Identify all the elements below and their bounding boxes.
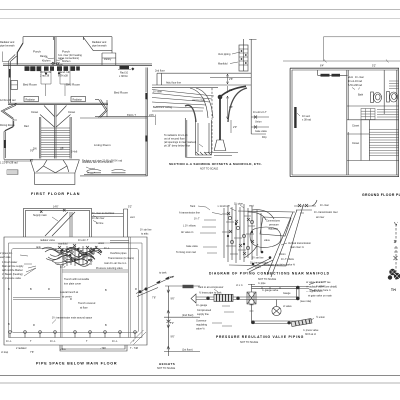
porch party wall bbox=[55, 37, 56, 65]
svg-text:Attic floor line: Attic floor line bbox=[166, 82, 182, 85]
svg-text:L 1¼ elbow: L 1¼ elbow bbox=[183, 225, 196, 228]
svg-text:to attic: to attic bbox=[141, 233, 149, 236]
svg-text:1¼ L: 1¼ L bbox=[6, 340, 12, 343]
svg-text:2nd floor: 2nd floor bbox=[155, 70, 165, 73]
svg-text:(see note): (see note) bbox=[300, 300, 311, 303]
svg-text:⅛ x ¾ T: ⅛ x ¾ T bbox=[316, 281, 325, 284]
svg-text:¼ pressure valve: ¼ pressure valve bbox=[2, 277, 22, 280]
svg-text:main: main bbox=[255, 266, 261, 269]
right elbow blobs bbox=[296, 286, 300, 290]
svg-text:x 1¼x1¼ T: x 1¼x1¼ T bbox=[218, 205, 231, 208]
svg-text:A transmission line: A transmission line bbox=[179, 212, 200, 215]
svg-text:Porch: Porch bbox=[62, 50, 70, 54]
porch lower rect bbox=[35, 173, 75, 184]
svg-text:- 748: - 748 bbox=[100, 347, 106, 350]
svg-text:Union: Union bbox=[279, 253, 286, 256]
bottom pipe valves bbox=[9, 331, 137, 338]
svg-text:R: R bbox=[33, 324, 35, 327]
svg-text:Overflow pipes: Overflow pipes bbox=[110, 252, 127, 255]
svg-text:1 Fresh water: 1 Fresh water bbox=[2, 261, 17, 264]
svg-text:Manifold: Manifold bbox=[218, 63, 228, 66]
cross fitting bbox=[247, 284, 256, 312]
top right double vertical bbox=[123, 209, 127, 237]
dark dim box bbox=[183, 285, 194, 288]
svg-text:DN: DN bbox=[33, 148, 37, 151]
svg-text:½ union: ½ union bbox=[316, 315, 326, 319]
svg-text:14'6": 14'6" bbox=[53, 206, 59, 209]
svg-text:1¼ riser: 1¼ riser bbox=[320, 204, 329, 207]
svg-text:1¼ gauge: 1¼ gauge bbox=[196, 304, 208, 307]
svg-text:supply line: supply line bbox=[197, 313, 209, 316]
svg-text:Main air line supply: Main air line supply bbox=[2, 265, 24, 268]
svg-text:1¼ T: 1¼ T bbox=[60, 266, 66, 269]
slanted quad outline bbox=[229, 204, 304, 277]
svg-text:1¼ riser: 1¼ riser bbox=[153, 91, 162, 94]
svg-text:⅛ valve: ⅛ valve bbox=[283, 305, 292, 308]
svg-text:30 lb at ⅛: 30 lb at ⅛ bbox=[305, 333, 317, 336]
inner verticals bbox=[61, 237, 131, 338]
svg-text:1¼ L: 1¼ L bbox=[104, 247, 110, 250]
stair walls bbox=[40, 117, 71, 159]
svg-text:To living room rad: To living room rad bbox=[176, 251, 196, 254]
gauge circle bbox=[272, 306, 281, 315]
stair treads bbox=[41, 128, 70, 157]
left wall radiator bbox=[294, 107, 296, 128]
svg-text:7'6": 7'6" bbox=[30, 351, 34, 354]
svg-text:Supply main: Supply main bbox=[33, 214, 47, 217]
right valve assembly bbox=[251, 85, 269, 134]
svg-text:4'6": 4'6" bbox=[229, 106, 233, 109]
svg-text:pressure: pressure bbox=[269, 224, 279, 227]
svg-text:valve: valve bbox=[60, 348, 66, 351]
main upper wall bbox=[3, 65, 152, 67]
party wall lower bbox=[55, 105, 56, 159]
riser to border bbox=[244, 39, 257, 85]
svg-text:Kitchen: Kitchen bbox=[42, 60, 51, 63]
top-right riser symbols bbox=[294, 200, 317, 207]
left lower wall bbox=[4, 120, 14, 160]
right diagonal to heights bbox=[136, 276, 174, 294]
svg-text:radiator valve: radiator valve bbox=[40, 239, 56, 242]
svg-text:valve: valve bbox=[264, 239, 270, 242]
svg-text:main riser ⅛: main riser ⅛ bbox=[290, 246, 305, 249]
svg-text:UP: UP bbox=[60, 148, 64, 151]
svg-text:7'2": 7'2" bbox=[170, 322, 174, 325]
svg-text:air riser: air riser bbox=[316, 216, 325, 219]
svg-text:1¼ T elbow: 1¼ T elbow bbox=[281, 258, 294, 261]
porch left angled wall bbox=[17, 43, 23, 65]
porch steps zigzag bbox=[36, 160, 68, 173]
svg-text:5'2": 5'2" bbox=[372, 65, 376, 68]
svg-text:Bed Room: Bed Room bbox=[23, 83, 38, 87]
svg-text:1¼x1-16 rad: 1¼x1-16 rad bbox=[348, 80, 363, 83]
svg-text:1¼ L: 1¼ L bbox=[50, 340, 56, 343]
svg-text:Gate valve: Gate valve bbox=[255, 130, 268, 133]
svg-text:Vertical transmission: Vertical transmission bbox=[288, 242, 312, 245]
svg-text:Tank: Tank bbox=[190, 205, 196, 208]
svg-text:air line: air line bbox=[96, 222, 104, 225]
drip funnel bbox=[214, 140, 226, 151]
svg-text:TH: TH bbox=[391, 288, 396, 292]
svg-text:½ brass pipe to tank: ½ brass pipe to tank bbox=[199, 291, 222, 295]
svg-text:1¼ air line: 1¼ air line bbox=[140, 229, 152, 232]
svg-text:Bath: Bath bbox=[358, 94, 364, 97]
right wall radiator mark bbox=[145, 93, 147, 100]
svg-text:⊗ gate valve on main: ⊗ gate valve on main bbox=[308, 295, 332, 298]
svg-text:R: R bbox=[70, 298, 72, 301]
svg-text:2'0": 2'0" bbox=[233, 126, 237, 129]
svg-text:iron plate cover: iron plate cover bbox=[64, 283, 81, 286]
svg-text:Closet: Closet bbox=[352, 142, 359, 145]
svg-text:Compressed: Compressed bbox=[197, 309, 212, 312]
connector line from plan bbox=[165, 285, 200, 287]
pit bbox=[196, 120, 212, 155]
svg-text:Closet: Closet bbox=[31, 111, 38, 114]
svg-text:1¼ T: 1¼ T bbox=[194, 218, 200, 221]
svg-text:9'6": 9'6" bbox=[171, 336, 175, 339]
svg-text:¾ press valve: ¾ press valve bbox=[303, 329, 319, 332]
svg-text:Drip: Drip bbox=[262, 136, 267, 139]
svg-text:tank: tank bbox=[36, 246, 41, 249]
svg-text:2 radiator: 2 radiator bbox=[16, 347, 27, 350]
svg-text:9'6": 9'6" bbox=[170, 276, 174, 279]
svg-text:to tank: to tank bbox=[159, 272, 167, 275]
right angled ribbed pipe bbox=[291, 319, 312, 327]
kitchen window/counter blocks bbox=[25, 66, 30, 71]
valve rosette bbox=[388, 269, 400, 280]
svg-text:9'6": 9'6" bbox=[171, 298, 175, 301]
svg-text:Radiator: Radiator bbox=[73, 98, 83, 101]
svg-text:1¼ transmission riser: 1¼ transmission riser bbox=[314, 211, 338, 214]
upper small ladder bbox=[389, 81, 399, 89]
svg-text:Air valve ⅛: Air valve ⅛ bbox=[181, 231, 194, 234]
main horizontal pipe bbox=[196, 297, 298, 300]
svg-text:5'2": 5'2" bbox=[128, 206, 132, 209]
porch trapezoid bbox=[30, 160, 79, 173]
svg-text:1¼ air line: 1¼ air line bbox=[252, 257, 264, 260]
bell curves center bbox=[190, 88, 213, 118]
right wing walls (living room) bbox=[80, 68, 147, 177]
svg-text:1¼ L: 1¼ L bbox=[112, 340, 118, 343]
section cut line bbox=[324, 37, 400, 61]
svg-text:PIPE SPACE BELOW MAIN FLOOR: PIPE SPACE BELOW MAIN FLOOR bbox=[36, 362, 117, 366]
svg-text:Pressure regulating valve ⅛: Pressure regulating valve ⅛ bbox=[264, 264, 296, 267]
svg-text:1¼ riser: 1¼ riser bbox=[355, 76, 364, 79]
closet partitions bbox=[41, 66, 70, 96]
right riser bbox=[297, 287, 310, 300]
parallelogram box bbox=[260, 217, 291, 236]
svg-text:GROUND FLOOR PLAN: GROUND FLOOR PLAN bbox=[362, 193, 400, 197]
svg-text:1 21-6¼x38 rad: 1 21-6¼x38 rad bbox=[0, 162, 18, 165]
svg-text:vent: vent bbox=[130, 216, 135, 219]
stairs bbox=[368, 120, 370, 161]
svg-text:Transmission (to risers): Transmission (to risers) bbox=[108, 257, 134, 260]
svg-text:1¼x1¼x¾ T: 1¼x1¼x¾ T bbox=[253, 111, 267, 114]
svg-text:x 38 rad: x 38 rad bbox=[302, 119, 312, 122]
svg-text:each side: each side bbox=[0, 256, 11, 259]
svg-text:Closet: Closet bbox=[352, 125, 359, 128]
curved pipes into oval bbox=[244, 210, 274, 258]
left pipe cluster verticals bbox=[224, 204, 261, 263]
svg-text:2-4x6: 2-4x6 bbox=[71, 151, 78, 154]
svg-text:2'6": 2'6" bbox=[229, 78, 233, 81]
svg-text:Trench with removable: Trench with removable bbox=[64, 278, 90, 281]
dim arrows bbox=[228, 74, 232, 133]
svg-text:Governor: Governor bbox=[196, 320, 207, 323]
svg-text:regulator: regulator bbox=[268, 228, 278, 231]
blob oval kidney bbox=[250, 227, 281, 248]
svg-text:Union: Union bbox=[255, 121, 262, 124]
svg-text:pipe beneath: pipe beneath bbox=[92, 45, 107, 48]
top inner partition w windows bbox=[318, 70, 348, 75]
svg-text:¾ pipe: ¾ pipe bbox=[258, 282, 266, 285]
main vertical partition bbox=[347, 70, 348, 175]
svg-text:SECTION A-A SHOWING OFFSETS &: SECTION A-A SHOWING OFFSETS & MANIFOLD, … bbox=[169, 162, 262, 166]
closet walls bbox=[347, 160, 399, 162]
svg-text:1¼ pipe: 1¼ pipe bbox=[234, 203, 244, 206]
radiator boxes w labels bbox=[24, 97, 86, 102]
svg-text:Radiator and pipe 21-6¼x38-5¼: Radiator and pipe 21-6¼x38-5¼ rad bbox=[82, 160, 123, 163]
svg-text:Basement ceiling: Basement ceiling bbox=[153, 106, 173, 109]
svg-text:⅛ x ¾: ⅛ x ¾ bbox=[236, 284, 244, 287]
svg-text:NOT TO SCALE: NOT TO SCALE bbox=[240, 341, 259, 344]
svg-text:regulating: regulating bbox=[196, 324, 208, 327]
right wing bottom wall bbox=[80, 175, 147, 176]
floor lines bbox=[152, 73, 251, 87]
svg-text:Pressure reducing valve: Pressure reducing valve bbox=[96, 267, 123, 270]
bottom tab rect bbox=[60, 345, 127, 351]
svg-text:vent: vent bbox=[249, 205, 254, 208]
svg-text:x 38-5¼: x 38-5¼ bbox=[119, 75, 129, 78]
left bay window pentagon bbox=[1, 104, 17, 121]
svg-text:DIAGRAM OF PIPING CONNECTIONS: DIAGRAM OF PIPING CONNECTIONS NEAR MANIF… bbox=[209, 272, 330, 276]
main outer rect bbox=[4, 237, 147, 345]
svg-text:¼ Steam (heating): ¼ Steam (heating) bbox=[2, 273, 23, 276]
hall V walls bbox=[40, 106, 71, 128]
svg-text:12-5¼x38 rad: 12-5¼x38 rad bbox=[0, 99, 16, 102]
junction dot + thick riser bbox=[218, 95, 223, 100]
svg-text:1¼x1¼ T: 1¼x1¼ T bbox=[78, 239, 89, 242]
svg-text:main 1¼ air line to L: main 1¼ air line to L bbox=[104, 262, 127, 265]
svg-text:1¼ riser to 2nd floor: 1¼ riser to 2nd floor bbox=[92, 212, 114, 215]
svg-text:Radiator: Radiator bbox=[26, 98, 36, 101]
svg-text:Gate valve: Gate valve bbox=[186, 245, 199, 248]
outer walls bbox=[290, 68, 399, 176]
svg-text:with nozzle Marker: with nozzle Marker bbox=[2, 269, 23, 272]
svg-text:NOT TO SCALE: NOT TO SCALE bbox=[157, 367, 176, 370]
svg-text:Gauge: Gauge bbox=[283, 292, 291, 295]
border bottom line 2 bbox=[0, 382, 400, 384]
svg-text:6'4": 6'4" bbox=[320, 65, 324, 68]
svg-text:Closet: Closet bbox=[68, 111, 75, 114]
svg-text:pipe beneath: pipe beneath bbox=[0, 45, 15, 48]
svg-text:Vent: Vent bbox=[348, 76, 353, 79]
svg-text:7'6": 7'6" bbox=[152, 297, 156, 300]
svg-text:Connections: Connections bbox=[266, 220, 281, 223]
svg-text:Bed Room: Bed Room bbox=[114, 91, 129, 95]
svg-text:at floor: at floor bbox=[80, 307, 88, 310]
svg-text:T - 748: T - 748 bbox=[130, 347, 138, 350]
vertical height line bbox=[167, 286, 169, 356]
svg-text:valve ⅛: valve ⅛ bbox=[196, 328, 206, 331]
svg-text:1¼ air riser: 1¼ air riser bbox=[92, 217, 105, 220]
svg-text:Kitchen: Kitchen bbox=[62, 60, 71, 63]
porch top wall bbox=[23, 37, 112, 43]
corner diagonals bbox=[130, 330, 146, 345]
right side porch line bbox=[147, 115, 155, 126]
rad window right wing bbox=[120, 66, 130, 70]
svg-text:(2nd floor): (2nd floor) bbox=[182, 314, 194, 317]
svg-text:manifold: manifold bbox=[58, 243, 68, 246]
svg-text:R: R bbox=[135, 288, 137, 291]
svg-text:Reduce here ¾: Reduce here ¾ bbox=[314, 289, 332, 292]
svg-text:6-5¼x38 rad: 6-5¼x38 rad bbox=[348, 84, 363, 87]
svg-text:Bed Room: Bed Room bbox=[66, 83, 81, 87]
svg-text:24'6: 24'6 bbox=[149, 114, 154, 117]
svg-text:8'10¾ T: 8'10¾ T bbox=[127, 114, 136, 117]
border bottom line 1 bbox=[0, 375, 400, 377]
mid horizontal wall bbox=[8, 104, 108, 106]
svg-text:Pantry: Pantry bbox=[104, 58, 112, 61]
left step hatch bbox=[7, 170, 18, 175]
svg-text:R: R bbox=[48, 288, 50, 291]
left outer wall bbox=[2, 52, 8, 62]
cluster cross ticks bbox=[222, 214, 255, 254]
svg-text:2 pipes 1¼: 2 pipes 1¼ bbox=[0, 252, 13, 255]
svg-text:Dining Room: Dining Room bbox=[0, 124, 14, 127]
svg-text:FIRST FLOOR PLAN: FIRST FLOOR PLAN bbox=[31, 192, 80, 196]
svg-text:⅛ trap: ⅛ trap bbox=[1, 351, 9, 354]
linen shelves bbox=[361, 109, 375, 120]
svg-text:¾ union: ¾ union bbox=[316, 285, 326, 288]
svg-text:PRESSURE REGULATING VALVE PIPI: PRESSURE REGULATING VALVE PIPING bbox=[216, 335, 304, 339]
svg-text:¾ gauge valve: ¾ gauge valve bbox=[262, 289, 279, 292]
sloped offset pipes bbox=[152, 90, 214, 112]
manifold grid bbox=[239, 45, 248, 71]
svg-text:Trench covered: Trench covered bbox=[78, 302, 96, 305]
svg-text:vent to riser: vent to riser bbox=[192, 99, 205, 102]
svg-text:NOT TO SCALE: NOT TO SCALE bbox=[258, 278, 277, 281]
svg-text:1'0": 1'0" bbox=[229, 89, 233, 92]
svg-text:Living Room: Living Room bbox=[94, 143, 111, 147]
bottom windows right wing bbox=[87, 170, 126, 173]
svg-text:Vent piping: Vent piping bbox=[218, 53, 231, 56]
svg-text:Lateral trench at: Lateral trench at bbox=[60, 291, 78, 294]
pipe loop 1 bbox=[9, 243, 143, 338]
svg-text:Rad: Rad bbox=[24, 125, 29, 128]
lower slant main bbox=[247, 258, 273, 272]
riser line bbox=[395, 222, 398, 280]
border top line 2 bbox=[0, 18, 400, 20]
left radiator box bbox=[11, 81, 18, 90]
left arrow end bbox=[191, 294, 196, 303]
furnace room rect bbox=[23, 208, 91, 237]
ribbed union left bbox=[214, 294, 233, 301]
pipe loop 2 rounded bbox=[12, 249, 139, 333]
svg-text:NOT TO SCALE: NOT TO SCALE bbox=[200, 168, 219, 171]
svg-text:(1st floor): (1st floor) bbox=[182, 348, 193, 351]
bath partition bbox=[347, 70, 399, 120]
svg-text:pit 18" deep below floor: pit 18" deep below floor bbox=[164, 145, 190, 148]
svg-text:Porch: Porch bbox=[33, 50, 41, 54]
toilets bbox=[371, 92, 398, 103]
left wing bottom wall bbox=[4, 160, 33, 162]
svg-text:1¼ transmission main around: 1¼ transmission main around space bbox=[52, 317, 93, 320]
border top line 1 bbox=[0, 9, 400, 11]
svg-text:6-5¼x38: 6-5¼x38 bbox=[58, 75, 68, 78]
vertical drop w second run bbox=[252, 312, 298, 324]
manifold blob cluster bbox=[42, 244, 102, 266]
svg-text:HEIGHTS: HEIGHTS bbox=[159, 362, 175, 366]
svg-text:union: union bbox=[98, 242, 105, 245]
svg-text:Tank to air-compressor: Tank to air-compressor bbox=[198, 286, 224, 289]
svg-text:2 rad 38: 2 rad 38 bbox=[40, 75, 50, 78]
pantry room top right bbox=[102, 53, 116, 65]
ticks bbox=[164, 317, 200, 351]
